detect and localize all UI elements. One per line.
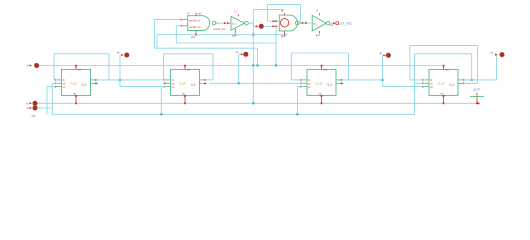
svg-text:sn: sn — [430, 86, 433, 89]
svg-text:I5: I5 — [188, 11, 191, 15]
svg-text:q1: q1 — [236, 51, 239, 54]
svg-text:q3: q3 — [491, 51, 494, 54]
svg-text:Q_b: Q_b — [82, 82, 87, 86]
svg-text:cond0_n2: cond0_n2 — [189, 25, 201, 29]
svg-text:cl: cl — [26, 107, 28, 110]
svg-text:I7: I7 — [316, 8, 319, 12]
svg-text:rs: rs — [26, 102, 29, 105]
svg-text:rst: rst — [319, 92, 322, 96]
svg-text:si: si — [26, 65, 28, 68]
svg-text:out_clk2: out_clk2 — [340, 21, 352, 25]
svg-text:rst: rst — [73, 92, 76, 96]
svg-text:gnd: gnd — [281, 35, 286, 38]
svg-text:vdd: vdd — [198, 12, 203, 15]
svg-text:gnd: gnd — [191, 36, 196, 39]
svg-text:Q_b: Q_b — [449, 82, 454, 86]
svg-text:sn: sn — [172, 86, 175, 89]
svg-text:cond0_n1: cond0_n1 — [189, 19, 201, 23]
svg-text:set: set — [445, 68, 449, 71]
svg-text:sn: sn — [308, 86, 311, 89]
svg-text:sn: sn — [63, 86, 66, 89]
svg-text:rst: rst — [441, 92, 444, 96]
svg-text:rst: rst — [182, 92, 185, 96]
svg-text:set: set — [187, 68, 191, 71]
svg-text:out: out — [330, 24, 334, 27]
svg-text:I3 dff: I3 dff — [70, 81, 77, 85]
svg-text:Q_b: Q_b — [327, 82, 332, 86]
svg-text:I3 dff: I3 dff — [316, 81, 323, 85]
svg-text:gnd!: gnd! — [474, 88, 480, 92]
svg-text:q2: q2 — [379, 52, 382, 55]
svg-text:clk: clk — [32, 114, 36, 118]
svg-text:q0: q0 — [117, 52, 120, 55]
svg-text:set: set — [323, 68, 327, 71]
svg-text:Q_b: Q_b — [191, 82, 196, 86]
svg-text:I2: I2 — [235, 9, 238, 13]
svg-text:in_c: in_c — [232, 23, 237, 25]
svg-text:I3 dff: I3 dff — [438, 81, 445, 85]
svg-text:gnd: gnd — [316, 34, 321, 37]
svg-text:cond1_out: cond1_out — [213, 27, 225, 31]
svg-text:in_c: in_c — [313, 23, 318, 25]
svg-text:set: set — [78, 68, 82, 71]
svg-text:I3 dff: I3 dff — [179, 81, 186, 85]
